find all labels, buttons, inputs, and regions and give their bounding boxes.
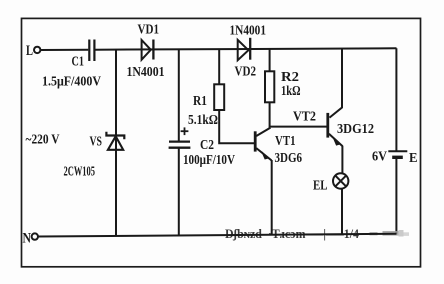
svg-text:1kΩ: 1kΩ — [281, 84, 301, 99]
wire C2 branch lower — [178, 148, 180, 236]
resistor R2 — [265, 71, 274, 102]
diode VD1 — [142, 40, 154, 60]
svg-text:~220 V: ~220 V — [26, 133, 60, 148]
svg-text:1N4001: 1N4001 — [127, 65, 165, 80]
wire VS branch — [115, 50, 117, 236]
wire R1 top lead — [218, 49, 220, 84]
svg-text:6V: 6V — [372, 150, 387, 165]
wire C2 branch upper — [178, 49, 180, 141]
svg-text:3DG12: 3DG12 — [337, 122, 374, 137]
svg-text:C1: C1 — [72, 55, 85, 70]
terminal N — [23, 231, 39, 247]
capacitor C1 — [89, 40, 94, 62]
svg-text:VS: VS — [90, 135, 103, 150]
wire right side upper — [395, 48, 397, 151]
battery E — [388, 151, 407, 157]
transistor VT1 — [255, 128, 271, 161]
svg-text:E: E — [409, 151, 418, 166]
svg-text:VD1: VD1 — [138, 23, 160, 38]
svg-text:N: N — [23, 231, 32, 247]
svg-text:5.1kΩ: 5.1kΩ — [188, 113, 218, 128]
svg-text:L: L — [26, 43, 33, 59]
wire top (L to right corner) — [41, 48, 397, 50]
wire bottom (N to right corner) — [38, 234, 396, 237]
svg-text:3DG6: 3DG6 — [275, 151, 303, 166]
svg-text:VT2: VT2 — [293, 110, 316, 125]
svg-text:VD2: VD2 — [235, 65, 257, 80]
wire R2 bottom to VT2 base — [270, 102, 327, 126]
svg-text:1.5μF/400V: 1.5μF/400V — [42, 75, 101, 90]
transistor VT2 — [328, 113, 343, 146]
resistor R1 — [214, 84, 224, 110]
wire VT2 emitter to lamp — [341, 146, 343, 174]
diode VD2 — [238, 38, 251, 60]
zener diode VS 2CW105 — [106, 132, 124, 150]
svg-text:R2: R2 — [281, 70, 299, 85]
lamp EL — [333, 173, 348, 188]
terminal L — [26, 43, 40, 59]
wire VT1 emitter to bottom — [271, 160, 273, 235]
svg-text:EL: EL — [313, 179, 328, 194]
svg-text:1N4001: 1N4001 — [230, 24, 267, 39]
wire VT2 collector — [330, 49, 343, 118]
wire R2 top lead — [269, 49, 271, 72]
svg-text:2CW105: 2CW105 — [64, 165, 96, 180]
wire right side lower — [395, 157, 397, 234]
svg-text:R1: R1 — [193, 94, 207, 109]
svg-text:C2: C2 — [200, 138, 214, 153]
svg-text:VT1: VT1 — [275, 134, 296, 149]
watermark text — [218, 227, 409, 241]
svg-text:100μF/10V: 100μF/10V — [183, 153, 235, 168]
wire R1 bottom to VT1 base — [219, 110, 254, 143]
wire lamp to bottom — [341, 189, 343, 235]
capacitor C2 (electrolytic) — [169, 127, 191, 147]
